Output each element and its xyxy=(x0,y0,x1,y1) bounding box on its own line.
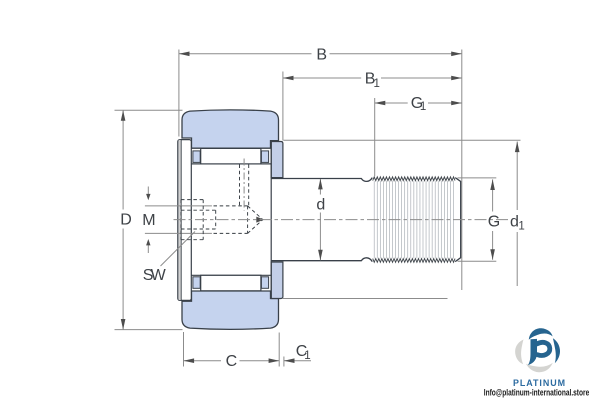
arrowheads C xyxy=(184,358,195,363)
logo right blue petal xyxy=(553,338,560,363)
arrowheads d xyxy=(318,179,323,190)
right thrust washer lower half xyxy=(271,262,283,299)
dimension line G1 xyxy=(375,102,408,104)
lubrication hole center line xyxy=(243,159,245,211)
right washer inner face line xyxy=(270,142,272,299)
ring lip block bottom-right xyxy=(261,277,268,289)
main axis center line xyxy=(174,219,509,221)
arrowheads B xyxy=(179,52,190,57)
extension line C1 right xyxy=(283,357,285,367)
svg-text:M: M xyxy=(142,212,155,229)
thread root lines xyxy=(374,181,453,259)
arrowheads M xyxy=(146,194,150,200)
right thrust washer upper half xyxy=(271,142,283,178)
SW leader line xyxy=(161,232,196,267)
svg-text:B: B xyxy=(316,47,327,64)
stud head top surface line xyxy=(191,163,271,165)
shaft bottom edge with relief groove xyxy=(271,258,372,262)
svg-text:1: 1 xyxy=(304,350,310,362)
logo P bowl xyxy=(537,342,550,355)
outer ring top band xyxy=(182,110,279,148)
tapped hole M hidden outline xyxy=(214,205,248,207)
extension line G1 left xyxy=(374,98,376,176)
svg-text:SW: SW xyxy=(143,267,167,284)
dimension line C xyxy=(184,360,222,362)
outer ring bottom band xyxy=(182,291,279,329)
extension lines M xyxy=(145,205,212,207)
C1 dimension tail line xyxy=(284,360,311,362)
svg-text:C: C xyxy=(226,353,238,370)
drill cone hidden outline xyxy=(248,206,263,220)
arrowhead d1 top xyxy=(515,142,520,153)
left thrust washer xyxy=(178,140,192,301)
arrowhead at drill cone tip xyxy=(256,217,264,223)
stud head body xyxy=(191,164,271,275)
hex socket SW hidden outline xyxy=(181,199,203,201)
svg-text:d: d xyxy=(316,197,325,214)
stud end face with chamfers xyxy=(455,178,461,262)
needle roller top xyxy=(201,148,261,164)
logo top blue petal xyxy=(529,328,553,340)
extension lines G xyxy=(458,177,497,179)
dimension line G xyxy=(492,179,494,211)
dimension line d1 xyxy=(516,142,518,211)
thread crest zigzag bottom xyxy=(373,259,455,263)
pilot hole hidden outline xyxy=(181,209,216,211)
dimension line d xyxy=(319,179,321,195)
stud shaft body xyxy=(271,178,461,262)
lubrication hole hidden outline xyxy=(239,165,241,206)
arrowheads D xyxy=(121,110,126,121)
svg-text:D: D xyxy=(120,212,132,229)
dimension line B xyxy=(179,53,312,55)
extension line B1 left xyxy=(282,72,284,141)
ring lip block top-left xyxy=(193,151,200,163)
needle roller bottom xyxy=(201,275,261,291)
arrowhead C1 xyxy=(284,358,295,363)
M arrow tails xyxy=(147,187,149,195)
extension line at stud end (B, B1, G1 right) xyxy=(461,50,463,291)
arrowheads G1 xyxy=(375,101,386,106)
dimension line B1 xyxy=(283,77,361,79)
ring lip block bottom-left xyxy=(193,277,200,289)
dimension line D xyxy=(122,110,124,209)
logo left grey petal xyxy=(515,340,523,365)
arrowheads G xyxy=(490,179,495,190)
svg-text:Info@platinum-international.st: Info@platinum-international.store xyxy=(484,387,590,397)
extension line D top xyxy=(115,109,183,111)
extension line d1 bottom xyxy=(282,298,448,300)
ring lip block top-right xyxy=(261,151,268,163)
extension line D bottom xyxy=(115,329,183,331)
stud head bottom surface line xyxy=(191,274,271,276)
svg-text:G: G xyxy=(488,214,500,231)
svg-text:1: 1 xyxy=(518,221,524,233)
extension line d1 top xyxy=(284,139,521,141)
logo P stem xyxy=(528,339,537,365)
svg-text:1: 1 xyxy=(420,101,426,113)
extension line B left xyxy=(178,50,180,137)
logo bottom grey petal xyxy=(526,363,553,372)
arrowheads B1 xyxy=(283,76,294,81)
extension line C right xyxy=(278,333,280,367)
shaft top edge with relief groove xyxy=(271,178,372,182)
svg-text:1: 1 xyxy=(374,78,380,90)
thread crest zigzag top xyxy=(373,177,455,181)
extension line C left xyxy=(183,332,185,367)
